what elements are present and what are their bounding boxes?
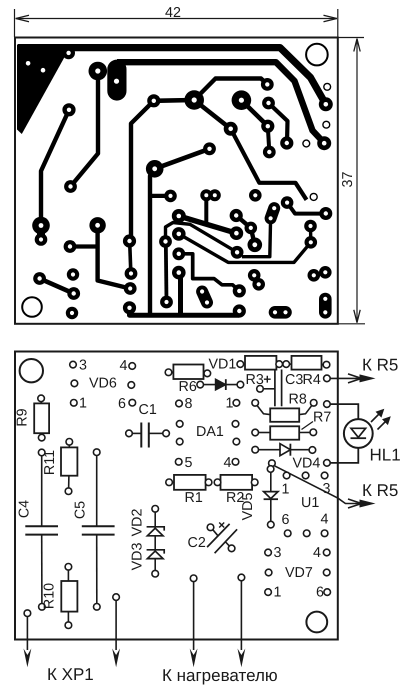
pad P10	[89, 217, 105, 233]
pad P45	[281, 196, 294, 209]
pad P20	[123, 234, 136, 247]
svg-text:C2: C2	[188, 535, 206, 551]
wire stub from P32	[204, 195, 208, 222]
resistor R9	[34, 403, 49, 433]
zener VD2	[154, 512, 156, 571]
lead pads (component side)	[70, 361, 77, 368]
pad P48	[319, 207, 332, 220]
svg-text:3: 3	[274, 545, 282, 561]
pad P13	[67, 287, 80, 300]
pad bus2 end P39	[317, 136, 331, 150]
wire to XP1 arrow 1	[26, 617, 28, 650]
svg-text:42: 42	[165, 5, 181, 21]
pad P66	[230, 226, 244, 240]
svg-text:C3: C3	[285, 372, 303, 388]
wire P7 up-right to PB2'	[194, 79, 267, 101]
pad P17	[123, 301, 136, 314]
capacitor C1	[132, 432, 141, 434]
small hollow pad h1	[324, 83, 331, 90]
wire P10 vertical then diagonal to P18	[98, 226, 131, 289]
svg-text:1: 1	[282, 482, 290, 498]
pad bus1 end	[319, 97, 333, 111]
R7 leader line	[302, 422, 314, 430]
wire bottom bus	[130, 308, 240, 315]
wire P20-P19	[130, 245, 131, 272]
pad A7	[184, 90, 204, 110]
copper pour triangle top-left	[17, 45, 72, 135]
resistor R6	[173, 365, 203, 380]
pad P14	[67, 268, 79, 280]
svg-text:4: 4	[321, 512, 329, 528]
pad A8	[32, 217, 50, 235]
svg-text:К XP1: К XP1	[47, 665, 94, 684]
pad P29	[160, 296, 173, 309]
mounting hole bottom-right	[306, 612, 327, 633]
pad P21	[146, 160, 164, 178]
pad P33	[209, 189, 221, 201]
resistor R3	[245, 356, 276, 370]
pad P68	[252, 278, 265, 291]
svg-text:R2: R2	[226, 490, 244, 506]
wire to heater arrow 1	[193, 582, 195, 650]
svg-text:5: 5	[185, 455, 193, 471]
pad PB2	[262, 97, 275, 110]
wire P25 to P29	[164, 242, 168, 302]
dimension 42 extension line left	[14, 9, 16, 37]
svg-text:6: 6	[118, 396, 126, 412]
wire P24 diagonal to P66	[179, 216, 237, 233]
svg-text:3: 3	[79, 357, 87, 373]
dimension 42 left arrowhead	[16, 15, 29, 22]
svg-text:C1: C1	[139, 402, 157, 418]
pad P53	[230, 209, 243, 222]
pad PB3	[261, 120, 274, 133]
resistor R8	[270, 408, 299, 421]
pad P28	[172, 266, 186, 280]
svg-text:C5: C5	[73, 501, 89, 519]
small hollow pad h2	[323, 121, 330, 128]
svg-text:R9: R9	[15, 408, 31, 426]
wire P12-P13	[40, 279, 74, 294]
svg-text:3: 3	[323, 481, 331, 497]
wire PB1 to PB3	[241, 100, 267, 126]
wire: top thick bus 1	[18, 48, 326, 105]
svg-text:R3: R3	[246, 372, 264, 388]
wire long vertical from P21 to bottom bus	[150, 171, 153, 315]
svg-text:R11: R11	[42, 450, 58, 475]
pad PB1	[232, 90, 252, 110]
svg-text:R1: R1	[185, 490, 203, 506]
HL1 light arrow 2	[378, 420, 388, 430]
svg-text:C4: C4	[17, 500, 33, 518]
pad P51	[304, 220, 317, 233]
mounting hole bottom-left	[22, 297, 42, 317]
wire P45 to P48	[287, 203, 325, 214]
pad A8b	[35, 233, 48, 246]
pad P37	[280, 136, 293, 149]
wire P50 hook	[242, 218, 271, 256]
svg-text:К нагревателю: К нагревателю	[162, 666, 278, 685]
dimension 42 extension line right	[337, 9, 339, 37]
svg-text:VD6: VD6	[89, 376, 117, 392]
C3 polarity plus	[264, 376, 271, 383]
wire PB4 elbow to P42	[231, 129, 307, 200]
pad pair P60-P61	[319, 299, 332, 312]
svg-text:VD1: VD1	[209, 357, 237, 373]
svg-text:37: 37	[340, 172, 356, 188]
pad A5	[62, 103, 75, 116]
resistor R1	[174, 475, 206, 490]
small hollow pad h4	[310, 193, 317, 200]
pad PB2'	[261, 78, 274, 91]
svg-text:VD3: VD3	[130, 543, 146, 571]
small hollow pad h3	[303, 140, 310, 147]
pad A6	[147, 94, 160, 107]
pad pair P30-P31	[202, 292, 207, 303]
dimension 42 right arrowhead	[324, 15, 337, 22]
pad P24	[172, 209, 186, 223]
wire PB2 to P37	[269, 103, 288, 143]
dimension 37 extension tick bottom	[338, 323, 365, 325]
wire channel lower: P26 to P-r1 and P51	[179, 227, 311, 263]
wire P27 staircase to P64	[179, 254, 240, 291]
svg-text:R8: R8	[289, 392, 307, 408]
svg-text:R10: R10	[42, 583, 58, 609]
wire from pad A4 down-left	[71, 72, 99, 187]
pad P22	[203, 142, 216, 155]
wire A6 down long vertical	[131, 101, 154, 238]
pad P56	[231, 246, 244, 259]
pad P12	[33, 272, 46, 285]
pad PB5	[263, 146, 276, 159]
pad P19	[125, 267, 138, 280]
pad P54	[245, 222, 258, 235]
pad P11	[64, 240, 77, 253]
pad pair P46-P50	[271, 208, 275, 218]
svg-text:4: 4	[313, 545, 321, 561]
LED HL1 symbol	[351, 428, 366, 437]
capacitor C3 lead	[263, 388, 275, 390]
wire P53-P54-P55	[236, 216, 255, 245]
svg-text:U1: U1	[301, 495, 319, 511]
wire P11 branch	[70, 244, 98, 248]
pad A4	[89, 62, 108, 81]
diode VD5	[270, 472, 272, 522]
K R5 bottom arrowhead	[360, 500, 376, 508]
wire channel upper: P25 up then to P56	[166, 223, 238, 253]
capacitor C2 plates	[207, 524, 230, 547]
resistor R10	[61, 581, 77, 612]
pad P55	[248, 238, 263, 253]
svg-text:1: 1	[274, 585, 282, 601]
pad P59	[319, 266, 332, 279]
C2 polarity mark	[219, 523, 224, 528]
svg-text:R6: R6	[179, 379, 197, 395]
wire to XP1 arrow 2	[115, 601, 117, 651]
pad P32	[200, 189, 212, 201]
svg-text:R7: R7	[313, 410, 331, 426]
svg-text:6: 6	[282, 512, 290, 528]
pad P-r1	[305, 236, 318, 249]
wire to heater arrow 2	[240, 581, 242, 650]
dimension 42 line	[16, 18, 338, 20]
LED HL1 loop	[330, 404, 358, 463]
svg-text:DA1: DA1	[196, 424, 224, 440]
LED HL1 circle	[344, 419, 373, 448]
svg-text:1: 1	[79, 396, 87, 412]
resistor R4	[292, 356, 322, 370]
pad P43	[249, 189, 262, 202]
K R5 top arrowhead	[360, 374, 376, 382]
svg-text:К R5: К R5	[362, 481, 398, 500]
wire PB3 to PB5	[268, 126, 270, 151]
wire P67-P68 bridge	[254, 275, 259, 284]
resistor R7	[270, 426, 299, 439]
resistor R2	[221, 475, 253, 490]
wire branch to P23	[150, 194, 171, 198]
wire P28 thick vertical	[178, 276, 183, 315]
pad P64	[233, 284, 246, 297]
capacitor C4	[41, 456, 43, 527]
mounting hole top-right	[306, 44, 328, 66]
wire P7 down-right to PB4	[194, 100, 231, 129]
wire from pad A5 to pad A8	[41, 110, 69, 225]
svg-text:1: 1	[226, 395, 234, 411]
C2 leads	[213, 530, 219, 537]
dimension 37 line	[356, 39, 358, 323]
dimension 37 extension tick top	[338, 37, 364, 39]
HL1 light arrow 1	[371, 413, 381, 423]
board outline (component side)	[15, 352, 338, 640]
svg-text:VD2: VD2	[130, 509, 146, 537]
pad A1 on triangle	[62, 47, 75, 60]
pad P23	[164, 190, 177, 203]
pad P58	[308, 269, 321, 282]
wire A6-A7 horizontal	[154, 98, 194, 103]
svg-text:HL1: HL1	[370, 446, 401, 465]
pad (stadium via)	[107, 60, 126, 101]
dimension 37 bottom arrowhead	[354, 310, 360, 323]
svg-text:6: 6	[316, 585, 324, 601]
svg-text:VD7: VD7	[285, 565, 313, 581]
pad pair P62-P63	[275, 306, 286, 319]
svg-text:8: 8	[185, 396, 193, 412]
svg-text:4: 4	[120, 358, 128, 374]
wire P58-P59 bridge	[314, 272, 326, 275]
capacitor C3 plates	[274, 370, 276, 407]
wire to K R5 top	[330, 377, 371, 379]
diode VD4	[259, 449, 310, 451]
wire A8 to A8b	[37, 227, 45, 239]
pad P26	[172, 227, 186, 241]
pad PB4	[224, 122, 238, 136]
pad holes (white centers)	[26, 61, 31, 66]
diode VD1	[203, 384, 237, 386]
svg-text:VD4: VD4	[293, 456, 321, 472]
mounting hole top-left	[20, 359, 43, 382]
pad A9	[64, 180, 77, 193]
capacitor C5	[96, 456, 98, 527]
dimension 37 top arrowhead	[354, 39, 360, 52]
pad P15	[66, 307, 78, 319]
pad P27	[172, 247, 185, 260]
svg-text:4: 4	[224, 455, 232, 471]
pad P67	[248, 269, 261, 282]
wire P22 to P21	[155, 149, 210, 169]
zener VD3	[147, 550, 165, 554]
board outline (copper side)	[15, 38, 338, 324]
pad P65	[233, 304, 246, 317]
svg-text:R4: R4	[303, 372, 321, 388]
pad P18	[124, 282, 137, 295]
wire: top thick bus 2	[117, 62, 324, 143]
pad P25	[159, 235, 172, 248]
resistor R11	[61, 447, 77, 475]
wire to K R5 bottom	[274, 465, 372, 503]
svg-text:К R5: К R5	[362, 356, 398, 375]
